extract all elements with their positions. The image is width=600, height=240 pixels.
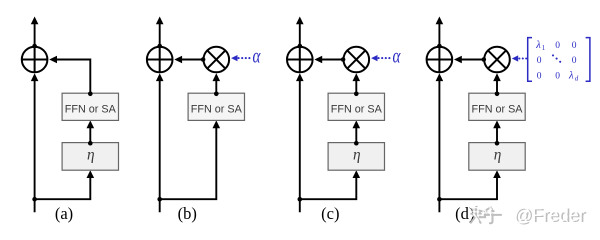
wire: residual input of block (a), bottom up into adder — [31, 73, 39, 212]
svg-text:η: η — [494, 147, 502, 164]
wire: branch from junction JB into FFN/SA box of block (b) — [160, 120, 220, 199]
dotted gate arrow into multiplier (diagonal matrix) — [512, 55, 527, 61]
svg-text:FFN or SA: FFN or SA — [472, 104, 524, 116]
multiplier (circled times) MD of block (d) — [484, 47, 510, 73]
svg-text:1: 1 — [542, 44, 546, 52]
wire: from eta box top to FFN/SA box bottom, block (c) — [353, 120, 361, 145]
wire: branch from junction JA into norm box of block (a) — [35, 170, 95, 199]
svg-text:(a): (a) — [55, 204, 73, 223]
wire: branch from junction JC into norm box of block (c) — [300, 170, 360, 199]
svg-text:@Freder: @Freder — [513, 205, 584, 225]
adder (circled plus) SB of block (b) — [147, 47, 173, 73]
FFN or SA box of block (d) — [469, 93, 525, 120]
wire: from multiplier MD left to adder SD, block (d) — [454, 56, 486, 64]
wire: branch from junction JD into norm box of block (d) — [439, 170, 500, 199]
wire: output of block (b), from adder top to top arrow — [156, 17, 164, 49]
svg-text:FFN or SA: FFN or SA — [331, 104, 383, 116]
adder (circled plus) SD of block (d) — [427, 47, 453, 73]
svg-text:0: 0 — [537, 56, 542, 66]
wire: FFN/SA output up into multiplier, block (c) — [353, 73, 361, 96]
svg-text:(b): (b) — [178, 204, 197, 223]
svg-text:α: α — [393, 44, 401, 67]
wire: output of block (a), from adder top to top arrow — [31, 17, 39, 49]
svg-text:λ: λ — [535, 40, 541, 51]
multiplier (circled times) MC of block (c) — [344, 47, 370, 73]
dotted gate arrow into multiplier (scalar alpha) — [371, 55, 390, 61]
wire: from eta box top to FFN/SA box bottom, block (a) — [87, 120, 95, 145]
svg-text:λ: λ — [568, 71, 574, 82]
norm box η (eta) of block (d) — [469, 143, 525, 171]
watermark: @Freder (embossed gray) — [513, 205, 586, 226]
wire: residual input of block (b), bottom up into adder — [156, 73, 164, 212]
wire: FFN/SA output up into multiplier, block (b) — [213, 73, 221, 96]
svg-text:0: 0 — [555, 41, 560, 51]
dotted gate arrow into multiplier (scalar alpha) — [231, 55, 250, 61]
svg-text:η: η — [353, 147, 361, 164]
watermark: Zhihu logo characters (embossed gray) — [469, 205, 501, 223]
value label: diagonal matrix diag(lambda_1..lambda_d) — [528, 38, 590, 83]
node: branch junction JC on input wire of block (c) — [298, 197, 303, 202]
svg-text:0: 0 — [572, 56, 577, 66]
FFN or SA box of block (a) — [62, 93, 118, 120]
node: branch junction JA on input wire of block (a) — [32, 197, 37, 202]
wire: from eta box top to FFN/SA box bottom, block (d) — [493, 120, 501, 145]
svg-text:(c): (c) — [321, 204, 339, 223]
FFN or SA box of block (c) — [328, 93, 384, 120]
node: branch junction JB on input wire of block (b) — [157, 197, 162, 202]
wire: FFN/SA output up into multiplier, block (d) — [493, 73, 501, 96]
svg-text:0: 0 — [537, 71, 542, 81]
wire: from multiplier MB left to adder SB, block (b) — [174, 56, 205, 64]
wire: output of block (d), from adder top to top arrow — [436, 17, 444, 49]
wire: output of block (c), from adder top to top arrow — [296, 17, 304, 49]
FFN or SA box of block (b) — [188, 93, 244, 120]
wire: residual input of block (d), bottom up into adder — [436, 73, 444, 212]
svg-text:0: 0 — [555, 71, 560, 81]
svg-text:FFN or SA: FFN or SA — [191, 104, 243, 116]
svg-text:α: α — [253, 44, 261, 67]
adder (circled plus) SC of block (c) — [287, 47, 313, 73]
svg-text:FFN or SA: FFN or SA — [65, 104, 117, 116]
wire: FFN/SA output up and left into adder, block (a) — [49, 56, 92, 96]
svg-text:0: 0 — [572, 41, 577, 51]
norm box η (eta) of block (c) — [328, 143, 384, 171]
node: branch junction JD on input wire of block (d) — [437, 197, 442, 202]
multiplier (circled times) MB of block (b) — [204, 47, 230, 73]
adder (circled plus) SA of block (a) — [22, 47, 48, 73]
wire: from multiplier MC left to adder SC, block (c) — [314, 56, 345, 64]
norm box η (eta) of block (a) — [62, 143, 118, 171]
wire: residual input of block (c), bottom up into adder — [296, 73, 304, 212]
svg-text:d: d — [575, 74, 579, 82]
svg-text:η: η — [87, 147, 95, 164]
